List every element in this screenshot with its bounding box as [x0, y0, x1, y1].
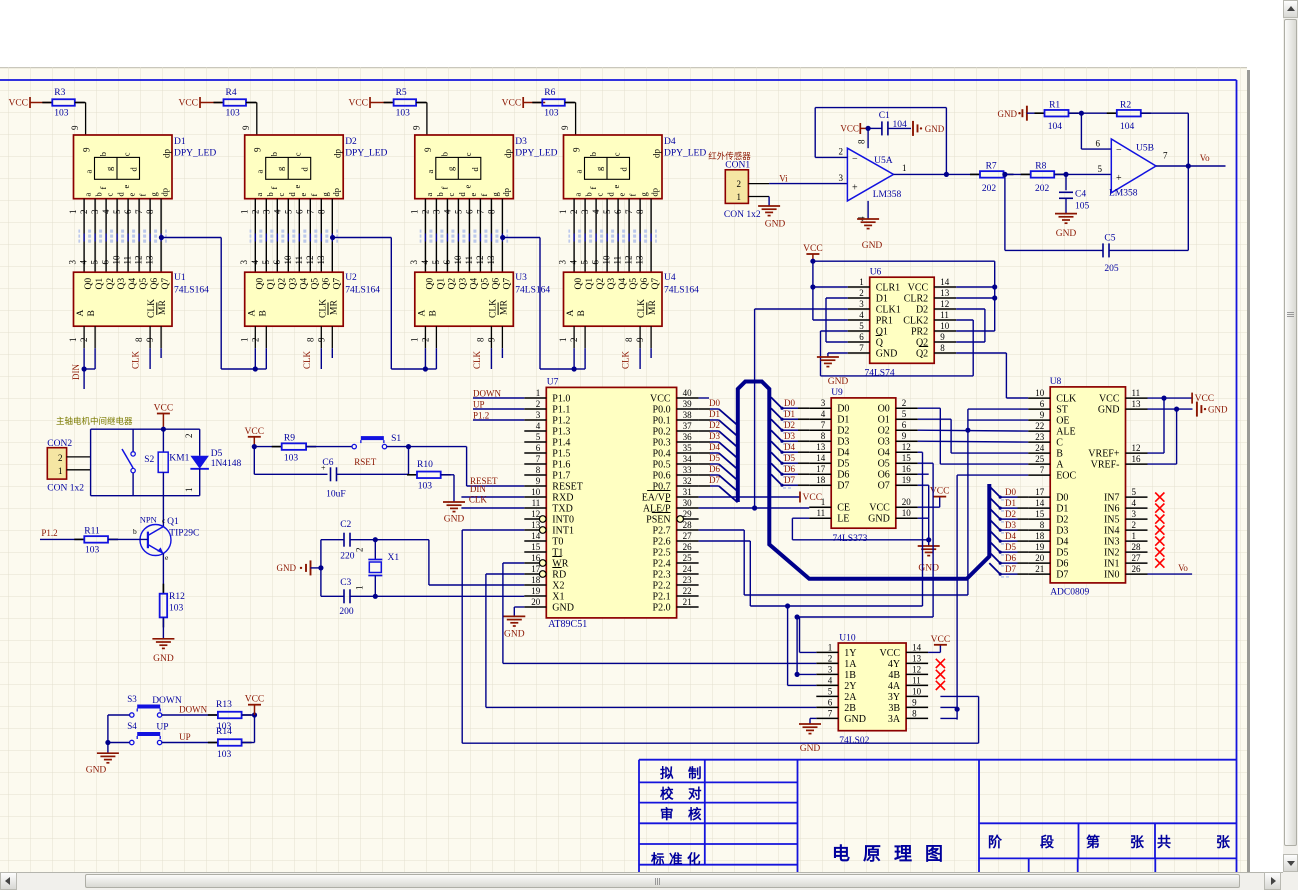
- svg-text:5: 5: [859, 321, 864, 331]
- wire CLK: [639, 348, 641, 369]
- svg-text:28: 28: [683, 520, 693, 530]
- flip-flop U6 74LS74: [870, 277, 935, 363]
- power VCC (col 3): [369, 97, 371, 108]
- svg-text:1A: 1A: [844, 659, 857, 670]
- wire U6 D1-Qbar tie: [826, 297, 848, 299]
- svg-text:D4: D4: [1005, 531, 1016, 541]
- svg-text:A: A: [1056, 460, 1064, 471]
- svg-text:P1.7: P1.7: [552, 471, 570, 482]
- svg-text:R7: R7: [986, 161, 997, 171]
- svg-text:11: 11: [464, 256, 474, 265]
- ground GND U10: [810, 717, 816, 719]
- svg-text:KM1: KM1: [169, 454, 189, 464]
- svg-text:14: 14: [912, 642, 922, 652]
- transistor Q1 TIP29C: [162, 496, 164, 527]
- wire A-B tie: [254, 348, 256, 369]
- wire U5A feedback: [814, 108, 816, 158]
- capacitor C5 205: [1004, 174, 1006, 250]
- svg-text:INT1: INT1: [552, 526, 574, 537]
- svg-text:U3: U3: [515, 273, 527, 283]
- svg-text:VCC: VCC: [803, 244, 823, 254]
- svg-text:−: −: [852, 154, 858, 165]
- svg-text:Q2: Q2: [106, 278, 116, 290]
- svg-text:4: 4: [859, 310, 864, 320]
- svg-text:D2: D2: [709, 420, 720, 430]
- svg-text:RXD: RXD: [552, 493, 573, 504]
- svg-text:Q4: Q4: [618, 278, 628, 290]
- svg-text:7: 7: [859, 343, 864, 353]
- svg-text:A: A: [247, 310, 257, 317]
- svg-text:IN5: IN5: [1104, 515, 1120, 526]
- svg-text:4: 4: [1132, 498, 1137, 508]
- svg-text:6: 6: [859, 332, 864, 342]
- svg-text:c: c: [463, 152, 473, 156]
- svg-text:O7: O7: [878, 481, 890, 492]
- svg-text:X2: X2: [552, 581, 564, 592]
- svg-text:−: −: [1116, 145, 1122, 156]
- svg-text:P1.1: P1.1: [552, 405, 570, 416]
- switch S1: [352, 444, 356, 448]
- svg-text:Q0: Q0: [84, 278, 94, 290]
- wire O1 to B: [918, 418, 951, 420]
- svg-text:P0.2: P0.2: [653, 427, 671, 438]
- wire X1 net: [375, 595, 524, 597]
- svg-text:R4: R4: [226, 88, 237, 98]
- wire: [416, 102, 427, 104]
- svg-text:12: 12: [475, 256, 485, 265]
- svg-text:2B: 2B: [844, 703, 856, 714]
- svg-text:dp: dp: [162, 149, 172, 159]
- svg-text:14: 14: [816, 453, 826, 463]
- svg-text:3: 3: [239, 260, 249, 265]
- svg-text:B: B: [428, 310, 438, 316]
- svg-text:6: 6: [1096, 139, 1101, 149]
- svg-text:RESET: RESET: [552, 482, 583, 493]
- wire buttons gnd: [107, 715, 109, 743]
- svg-text:Q2‌: Q2‌: [916, 349, 928, 360]
- svg-text:IN0: IN0: [1104, 570, 1120, 581]
- svg-text:103: 103: [396, 109, 411, 119]
- svg-text:Q6: Q6: [491, 278, 501, 290]
- svg-text:D1: D1: [784, 409, 795, 419]
- svg-text:3: 3: [821, 398, 826, 408]
- svg-text:a: a: [255, 170, 265, 174]
- svg-text:11: 11: [613, 256, 623, 265]
- svg-text:Q2: Q2: [596, 278, 606, 290]
- svg-text:S3: S3: [127, 694, 137, 704]
- svg-text:a: a: [425, 170, 435, 174]
- svg-text:e: e: [611, 185, 621, 189]
- svg-text:Vi: Vi: [779, 173, 788, 183]
- svg-text:24: 24: [1035, 443, 1045, 453]
- svg-text:ALE: ALE: [1056, 427, 1075, 438]
- svg-text:dp: dp: [331, 188, 341, 197]
- svg-text:1: 1: [355, 586, 365, 591]
- svg-text:10: 10: [912, 686, 922, 696]
- svg-text:R12: R12: [169, 592, 185, 602]
- svg-text:GND: GND: [1208, 405, 1228, 415]
- svg-text:18: 18: [1035, 531, 1045, 541]
- display D3 DPY_LED: [415, 135, 514, 199]
- svg-text:D4: D4: [784, 442, 795, 452]
- svg-text:P2.5: P2.5: [653, 548, 671, 559]
- power VCC U10: [928, 651, 940, 653]
- svg-text:A: A: [566, 310, 576, 317]
- power VCC EA: [699, 496, 800, 498]
- ground GND R10: [443, 501, 465, 503]
- svg-text:P2.6: P2.6: [653, 537, 671, 548]
- svg-text:R10: R10: [417, 460, 433, 470]
- svg-text:31: 31: [683, 487, 692, 497]
- svg-text:105: 105: [1075, 202, 1090, 212]
- power VCC U8: [1148, 397, 1193, 399]
- svg-text:Q6: Q6: [321, 278, 331, 290]
- svg-text:5: 5: [902, 409, 907, 419]
- svg-text:f: f: [269, 187, 279, 190]
- svg-text:9: 9: [241, 125, 251, 130]
- power VCC (col 1): [29, 97, 31, 108]
- svg-text:D6: D6: [1056, 559, 1068, 570]
- svg-text:10: 10: [531, 487, 541, 497]
- svg-text:P1.3: P1.3: [552, 427, 570, 438]
- svg-text:CON 1x2: CON 1x2: [724, 210, 761, 220]
- svg-text:P1.0: P1.0: [552, 394, 570, 405]
- svg-text:2: 2: [1132, 520, 1137, 530]
- svg-text:23: 23: [1035, 432, 1045, 442]
- svg-text:VCC: VCC: [1099, 394, 1120, 405]
- svg-text:103: 103: [217, 750, 232, 760]
- wire U6 D2-Q2 tie: [956, 308, 985, 310]
- svg-text:图: 图: [925, 844, 943, 864]
- bus entries P0 D0-D7: [699, 408, 710, 410]
- svg-text:7: 7: [305, 209, 315, 214]
- svg-text:对: 对: [688, 786, 702, 802]
- svg-text:P0.3: P0.3: [653, 438, 671, 449]
- wire VREF- to GND: [1176, 409, 1178, 464]
- svg-text:1: 1: [828, 642, 833, 652]
- svg-text:CLK: CLK: [131, 350, 141, 369]
- svg-text:3B: 3B: [888, 703, 900, 714]
- vertical scrollbar: [1283, 0, 1298, 872]
- svg-text:3Y: 3Y: [888, 692, 900, 703]
- svg-text:27: 27: [1132, 553, 1142, 563]
- svg-text:1B: 1B: [844, 670, 856, 681]
- svg-text:39: 39: [683, 399, 693, 409]
- bus data D0-D7: [738, 382, 990, 579]
- svg-text:D1: D1: [1056, 504, 1068, 515]
- svg-text:8: 8: [134, 337, 144, 342]
- svg-text:D5: D5: [709, 453, 720, 463]
- power VCC (col 2): [199, 97, 201, 108]
- svg-text:8: 8: [624, 337, 634, 342]
- svg-text:28: 28: [1132, 542, 1142, 552]
- svg-text:IN4: IN4: [1104, 526, 1120, 537]
- svg-text:Q5: Q5: [629, 278, 639, 290]
- svg-text:P0.4: P0.4: [653, 449, 671, 460]
- svg-text:13: 13: [816, 442, 826, 452]
- wire MR: [331, 348, 333, 358]
- wire U6 CLK1 from ALE: [755, 308, 848, 310]
- svg-text:200: 200: [339, 607, 354, 617]
- svg-text:7: 7: [134, 209, 144, 214]
- shift register U4 74LS164: [564, 272, 663, 326]
- wire RD to 2B: [486, 573, 524, 575]
- bus entries U9 D0-D7: [771, 397, 782, 408]
- svg-text:15: 15: [902, 453, 912, 463]
- svg-text:DPY_LED: DPY_LED: [345, 149, 387, 159]
- svg-text:202: 202: [1035, 184, 1050, 194]
- svg-text:c: c: [276, 193, 286, 197]
- svg-text:e: e: [127, 193, 137, 197]
- svg-text:TIP29C: TIP29C: [169, 529, 199, 539]
- svg-text:GND: GND: [1098, 405, 1120, 416]
- svg-text:第: 第: [1086, 834, 1100, 851]
- svg-text:9: 9: [912, 697, 917, 707]
- svg-text:MR: MR: [329, 300, 339, 315]
- svg-text:5: 5: [431, 260, 441, 265]
- ground GND U6: [828, 352, 848, 354]
- svg-text:6: 6: [613, 209, 623, 214]
- svg-text:DIN: DIN: [470, 484, 486, 494]
- svg-text:c: c: [293, 152, 303, 156]
- svg-text:4: 4: [101, 209, 111, 214]
- svg-text:D5: D5: [211, 449, 223, 459]
- svg-text:18: 18: [531, 575, 541, 585]
- svg-text:X1: X1: [388, 553, 400, 563]
- svg-text:2: 2: [58, 453, 63, 463]
- svg-text:P1.5: P1.5: [552, 449, 570, 460]
- svg-text:1: 1: [1132, 531, 1137, 541]
- svg-text:VCC: VCC: [803, 493, 823, 503]
- svg-text:Q5: Q5: [310, 278, 320, 290]
- ground GND CON1: [768, 197, 770, 207]
- svg-text:1: 1: [558, 210, 568, 215]
- svg-text:18: 18: [816, 475, 826, 485]
- svg-text:1: 1: [184, 488, 194, 493]
- wire MR: [501, 348, 503, 358]
- svg-text:1: 1: [902, 163, 907, 173]
- svg-text:b: b: [133, 527, 137, 536]
- svg-text:VCC: VCC: [178, 99, 198, 109]
- svg-text:23: 23: [683, 575, 693, 585]
- scrollbar grips: [1287, 312, 1294, 313]
- ground GND U7: [514, 606, 524, 608]
- svg-text:CE: CE: [837, 503, 850, 514]
- svg-text:GND: GND: [277, 563, 297, 573]
- svg-text:1: 1: [409, 210, 419, 215]
- svg-text:D3: D3: [784, 431, 795, 441]
- no-connect marks U10: [936, 659, 945, 668]
- svg-text:e: e: [292, 185, 302, 189]
- svg-text:DIN: DIN: [71, 364, 81, 380]
- wire CLK: [490, 348, 492, 369]
- svg-text:拟: 拟: [660, 765, 674, 781]
- svg-text:2: 2: [902, 398, 907, 408]
- svg-text:LM358: LM358: [873, 190, 902, 200]
- wire to RESET: [409, 446, 467, 448]
- svg-text:1: 1: [239, 210, 249, 215]
- ground GND Q1: [152, 638, 174, 640]
- switch S2: [132, 429, 134, 452]
- svg-text:27: 27: [683, 531, 693, 541]
- scrollbar corner: [1283, 872, 1298, 890]
- svg-text:D6: D6: [1005, 553, 1016, 563]
- svg-text:2: 2: [250, 210, 260, 215]
- svg-text:RSET: RSET: [354, 457, 377, 467]
- svg-text:1: 1: [558, 338, 568, 343]
- svg-text:12: 12: [305, 256, 315, 265]
- svg-text:12: 12: [912, 664, 921, 674]
- svg-text:D2: D2: [916, 305, 928, 316]
- svg-text:Vo: Vo: [1178, 563, 1188, 573]
- svg-text:VCC: VCC: [650, 394, 671, 405]
- svg-text:Q7: Q7: [161, 278, 171, 290]
- wire: [75, 102, 86, 104]
- svg-text:10: 10: [940, 321, 950, 331]
- svg-text:D4: D4: [664, 137, 676, 147]
- svg-text:D7: D7: [709, 475, 720, 485]
- svg-text:15: 15: [1035, 509, 1045, 519]
- svg-text:5: 5: [1132, 487, 1137, 497]
- svg-text:2: 2: [420, 210, 430, 215]
- svg-text:EOC: EOC: [1056, 471, 1076, 482]
- svg-text:O4: O4: [878, 448, 890, 459]
- svg-text:4B: 4B: [888, 670, 900, 681]
- svg-text:9: 9: [635, 337, 645, 342]
- wire WR to 1A: [503, 562, 524, 564]
- svg-text:CLR1: CLR1: [876, 283, 900, 294]
- svg-text:GND: GND: [868, 514, 890, 525]
- shift register U1 74LS164: [74, 272, 173, 326]
- svg-text:U1: U1: [174, 273, 186, 283]
- svg-text:15: 15: [531, 542, 541, 552]
- op-amp U5B LM358: [1111, 139, 1156, 193]
- svg-text:f: f: [309, 194, 319, 197]
- svg-text:2: 2: [420, 338, 430, 343]
- svg-text:17: 17: [1035, 487, 1045, 497]
- svg-text:2: 2: [839, 147, 844, 157]
- svg-text:12: 12: [531, 509, 540, 519]
- svg-text:1: 1: [821, 497, 826, 507]
- svg-text:5: 5: [112, 209, 122, 214]
- svg-text:104: 104: [1048, 122, 1063, 132]
- svg-text:5: 5: [261, 260, 271, 265]
- svg-text:Q3: Q3: [458, 278, 468, 290]
- svg-text:CON1: CON1: [725, 161, 750, 171]
- svg-text:+: +: [321, 464, 326, 473]
- svg-text:标: 标: [650, 851, 665, 867]
- svg-text:4: 4: [420, 260, 430, 265]
- svg-text:C2: C2: [340, 520, 351, 530]
- svg-text:Q3: Q3: [607, 278, 617, 290]
- svg-text:9: 9: [423, 147, 433, 152]
- svg-text:c: c: [446, 193, 456, 197]
- nor gates U10 74LS02: [838, 643, 906, 731]
- svg-text:CLK: CLK: [302, 350, 312, 369]
- wire MR: [160, 348, 162, 358]
- svg-text:P1.2: P1.2: [552, 416, 570, 427]
- svg-text:29: 29: [683, 509, 693, 519]
- svg-text:CLK: CLK: [488, 299, 498, 318]
- svg-text:O5: O5: [878, 459, 890, 470]
- svg-text:38: 38: [683, 410, 693, 420]
- svg-text:LM358: LM358: [1109, 189, 1138, 199]
- svg-text:R9: R9: [284, 434, 295, 444]
- svg-text:D3: D3: [1005, 520, 1016, 530]
- svg-text:10: 10: [283, 255, 293, 265]
- svg-text:12: 12: [902, 442, 911, 452]
- svg-text:S4: S4: [127, 721, 137, 731]
- power VCC U9: [918, 506, 940, 508]
- wire O4 net: [918, 451, 923, 453]
- svg-text:21: 21: [683, 597, 692, 607]
- svg-text:D1: D1: [709, 409, 720, 419]
- svg-text:9: 9: [1040, 410, 1045, 420]
- svg-text:103: 103: [544, 109, 559, 119]
- svg-text:dp: dp: [652, 149, 662, 159]
- svg-text:VREF+: VREF+: [1088, 449, 1120, 460]
- svg-text:6: 6: [464, 209, 474, 214]
- svg-text:D6: D6: [837, 470, 849, 481]
- svg-text:GND: GND: [844, 714, 866, 725]
- svg-text:4: 4: [250, 260, 260, 265]
- svg-text:2A: 2A: [844, 692, 857, 703]
- svg-text:PR2: PR2: [911, 327, 928, 338]
- svg-text:GND: GND: [998, 109, 1018, 119]
- svg-text:CLK: CLK: [147, 299, 157, 318]
- svg-text:9: 9: [902, 431, 907, 441]
- svg-text:2: 2: [79, 338, 89, 343]
- wire 1Y net: [799, 617, 801, 652]
- svg-text:D2: D2: [837, 426, 849, 437]
- svg-text:P1.2: P1.2: [473, 411, 489, 421]
- svg-text:GND: GND: [918, 564, 939, 574]
- svg-text:GND: GND: [876, 349, 898, 360]
- svg-text:LE: LE: [837, 514, 849, 525]
- wire ST-ALE net: [918, 429, 1028, 432]
- svg-text:4: 4: [79, 260, 89, 265]
- svg-text:1N4148: 1N4148: [211, 459, 242, 469]
- svg-text:Vo: Vo: [1200, 153, 1210, 163]
- svg-text:Q4: Q4: [469, 278, 479, 290]
- svg-text:34: 34: [683, 454, 693, 464]
- svg-text:D0: D0: [784, 398, 795, 408]
- svg-text:a: a: [424, 193, 434, 197]
- svg-text:2: 2: [355, 548, 365, 553]
- svg-text:TXD: TXD: [552, 504, 573, 515]
- svg-text:R8: R8: [1035, 161, 1046, 171]
- svg-text:VCC: VCC: [869, 503, 890, 514]
- svg-text:74LS164: 74LS164: [664, 286, 699, 296]
- svg-text:22: 22: [683, 586, 692, 596]
- svg-text:6: 6: [902, 420, 907, 430]
- svg-text:B: B: [577, 310, 587, 316]
- svg-text:CLK: CLK: [469, 495, 488, 505]
- svg-text:c: c: [122, 152, 132, 156]
- svg-text:1: 1: [409, 338, 419, 343]
- wire cascade U3 Q7 to U4: [500, 235, 505, 240]
- svg-text:Q1: Q1: [266, 278, 276, 290]
- svg-text:GND: GND: [1056, 229, 1077, 239]
- svg-text:Q1: Q1: [167, 517, 179, 527]
- svg-text:b: b: [265, 192, 275, 196]
- svg-text:3: 3: [558, 260, 568, 265]
- svg-text:U5A: U5A: [874, 156, 893, 166]
- svg-text:D3: D3: [837, 437, 849, 448]
- svg-text:Q7: Q7: [332, 278, 342, 290]
- svg-text:6: 6: [123, 209, 133, 214]
- svg-text:2Y: 2Y: [844, 681, 856, 692]
